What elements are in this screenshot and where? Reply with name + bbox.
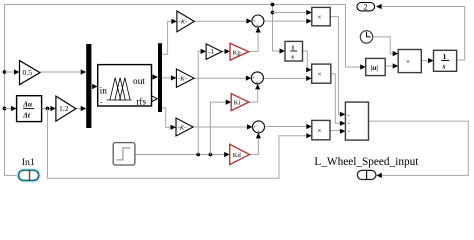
gain -1 <box>206 44 222 60</box>
node: branch to derivative block <box>3 107 7 111</box>
svg-text:1: 1 <box>443 52 447 61</box>
gain -K-1 <box>177 11 194 32</box>
wire: top rail carrying error signal <box>5 4 346 6</box>
svg-text:|u|: |u| <box>371 63 379 72</box>
wire: gain -K-1 to sum1 <box>194 18 252 23</box>
wire: gain -K-2 to sum2 <box>194 76 251 81</box>
clock <box>360 31 372 43</box>
gain 0.5 <box>20 61 40 85</box>
svg-text:-1: -1 <box>208 48 214 56</box>
wire: step branch up to gain -1 <box>198 49 206 155</box>
svg-text:In1: In1 <box>22 157 35 168</box>
svg-text:+: + <box>256 24 259 29</box>
demux <box>158 43 162 112</box>
svg-text:×: × <box>317 126 321 135</box>
svg-text:Ki: Ki <box>234 100 241 107</box>
wire: product3 to rect-sum input3 <box>330 129 345 134</box>
wire: integrator1 to product2 upper input <box>303 51 312 72</box>
wire: product2 to rect-sum input2 <box>331 74 346 126</box>
svg-text:×: × <box>318 69 322 78</box>
node: branch to product1 <box>271 11 275 15</box>
wire: gain 1.2 to mux <box>76 106 86 111</box>
gain -K-3 <box>176 118 193 136</box>
svg-text:-K-: -K- <box>178 76 187 83</box>
wire: branch to product1 upper input <box>273 10 312 15</box>
wire: derivative branch down along bottom to product3 <box>48 109 312 179</box>
wire: step branch up to gain Ki <box>210 100 231 155</box>
rect-sum subsystem <box>345 102 368 140</box>
integrator1 1/s <box>285 41 303 61</box>
product3 <box>312 120 330 139</box>
sum3 <box>253 121 265 135</box>
svg-text:Δt: Δt <box>22 110 31 119</box>
wire: rail to derivative block <box>5 106 17 111</box>
svg-text:s: s <box>290 53 294 60</box>
integrator2 1/s <box>434 50 457 71</box>
svg-text:+: + <box>257 130 260 135</box>
svg-text:-K-: -K- <box>178 124 187 131</box>
sum2 <box>251 72 263 86</box>
svg-text:Kp: Kp <box>233 49 242 56</box>
wire: product1 to rect-sum input1 <box>330 17 345 117</box>
outport L_Wheel_Speed_input <box>314 155 419 180</box>
wire: gain Kp up to sum1 <box>249 27 261 51</box>
wire: drop from top rail to abs block <box>346 5 366 70</box>
wire: sum2 to product2 lower input <box>263 76 311 81</box>
wire: sum1 to product1 lower input <box>264 19 312 24</box>
svg-text:1.2: 1.2 <box>59 104 69 113</box>
node: top rail junction <box>271 3 275 7</box>
wire: product4 to integrator2 <box>421 58 433 63</box>
outport 2 <box>357 1 375 11</box>
gain Kp <box>230 43 249 60</box>
svg-text:+: + <box>348 129 351 134</box>
node: branch to gain 0.5 <box>3 70 7 74</box>
wire: demux port2 to gain -K-2 <box>162 75 176 80</box>
svg-text:Kd: Kd <box>233 152 242 159</box>
svg-text:rfs: rfs <box>136 97 146 108</box>
node: derivative output branch <box>46 107 50 111</box>
wire: error rail down to integrator1 <box>273 5 286 54</box>
sum1 <box>252 15 264 29</box>
wire: fuzzy out to demux <box>152 74 159 79</box>
wire: gain -K-3 to sum3 <box>193 124 252 129</box>
svg-text:out: out <box>133 77 145 87</box>
mux <box>86 44 91 128</box>
wire: rect-sum output to L_Wheel outport <box>369 121 469 178</box>
wire: gain Ki up to sum2 <box>249 84 260 102</box>
svg-text:2: 2 <box>363 1 367 11</box>
abs block |u| <box>366 58 386 75</box>
product2 <box>312 64 331 83</box>
svg-text:in: in <box>100 87 108 97</box>
gain 1.2 <box>56 96 76 121</box>
wire: derivative to gain 1.2 <box>42 106 56 111</box>
derivative block du/dt <box>17 96 42 122</box>
step block <box>113 143 135 165</box>
svg-text:+: + <box>348 112 351 117</box>
svg-text:s: s <box>442 62 446 71</box>
wire: gain -1 to gain Kp <box>222 49 230 54</box>
wire: integrator2 up to outport 2 <box>376 4 465 60</box>
svg-text:0.5: 0.5 <box>23 68 33 77</box>
svg-text:×: × <box>317 12 321 21</box>
wire: mux to fuzzy controller input <box>91 84 97 89</box>
wire: demux port3 to gain -K-3 <box>162 108 176 130</box>
product4 <box>398 50 421 73</box>
wire: sum3 to product3 upper input <box>265 124 312 129</box>
wire: gain 0.5 to mux <box>40 69 86 74</box>
wire: step to gain Kd <box>135 152 230 157</box>
node: step branch to Ki <box>209 153 213 157</box>
wire: gain Kd up to sum3 <box>250 133 262 155</box>
svg-text:×: × <box>406 57 410 66</box>
svg-text:-K-: -K- <box>179 19 188 26</box>
svg-text:Δu: Δu <box>22 99 32 108</box>
product1 <box>312 7 330 25</box>
inport In1 <box>18 157 40 181</box>
svg-text:L_Wheel_Speed_input: L_Wheel_Speed_input <box>314 155 419 168</box>
node: step branch to -1 <box>196 153 200 157</box>
fuzzy logic controller block <box>98 65 152 108</box>
wire: In1 left rail up to top <box>5 5 19 176</box>
wire: clock to product4 upper input <box>373 37 399 56</box>
rfs unconnected port arrow <box>152 96 158 102</box>
svg-text:+: + <box>348 121 351 126</box>
gain -K-2 <box>176 69 194 87</box>
gain Kd <box>230 144 250 164</box>
wire: rail to gain 0.5 <box>5 69 20 74</box>
wire: abs to product4 lower input <box>385 63 398 68</box>
gain Ki <box>231 94 249 111</box>
wire: demux port1 to gain -K-1 <box>162 19 177 55</box>
svg-text:+: + <box>256 81 259 86</box>
